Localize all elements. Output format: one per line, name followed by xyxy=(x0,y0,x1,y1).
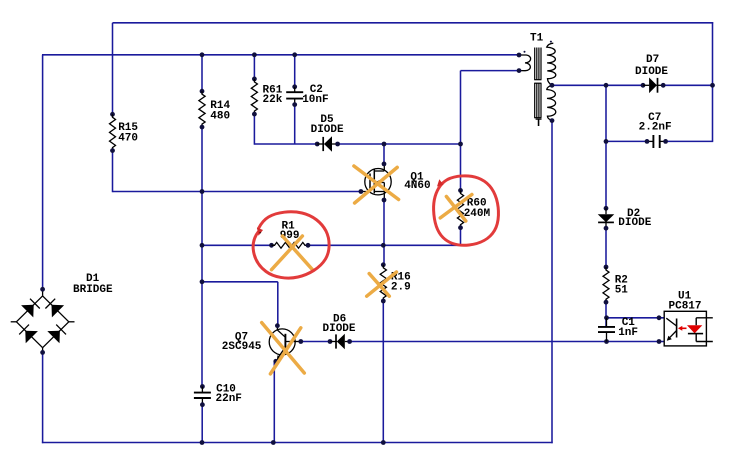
wire Q1 drain stub xyxy=(383,144,385,164)
wire C7 branch horizontal y=141.4 xyxy=(606,140,713,142)
wire R16 bottom vertical to ground bus xyxy=(382,301,384,443)
label D6 value xyxy=(323,314,356,336)
label R14 value xyxy=(210,100,230,122)
resistor R15 xyxy=(110,112,116,153)
label T1 xyxy=(530,33,544,45)
annotation red circle around R1 xyxy=(253,212,329,278)
wire R1 net left segment xyxy=(201,244,271,246)
label R1 value xyxy=(280,221,300,243)
junction Q7 branch / center vertical xyxy=(200,279,205,284)
svg-text:470: 470 xyxy=(118,132,138,144)
wire top bus from node A to right rail xyxy=(113,22,714,24)
wire D5 net horizontal y=144 xyxy=(254,143,317,145)
resistor R61 xyxy=(251,77,257,117)
junction ground bus / Q7 emitter xyxy=(271,440,276,445)
transistor Q1 (MOSFET 4N60) xyxy=(359,162,392,203)
junction input rail / C2 xyxy=(292,52,297,57)
diode D2 xyxy=(598,206,615,231)
junction input rail / R61 xyxy=(252,52,257,57)
svg-text:DIODE: DIODE xyxy=(323,323,356,335)
label T1 secondary T xyxy=(535,118,542,130)
junction R1 net / center vertical xyxy=(200,243,205,248)
junction Q1 drain / D5 net xyxy=(382,142,387,147)
svg-text:DIODE: DIODE xyxy=(311,124,344,136)
junction C1 top / U1 wire xyxy=(604,315,609,320)
wire R60 bottom to R1 net xyxy=(308,228,461,246)
wire R2 to C1 vertical xyxy=(605,302,607,327)
op-amp U1 (optocoupler PC817) xyxy=(657,311,713,346)
transformer T1 xyxy=(517,41,556,123)
wire gate net horizontal y=191.5 xyxy=(113,191,361,193)
annotation orange X over Q7 xyxy=(262,323,305,374)
label Q7 value xyxy=(222,332,262,354)
svg-text:4N60: 4N60 xyxy=(404,180,430,192)
wire Q1 source vertical to R16 xyxy=(383,200,385,265)
svg-text:22k: 22k xyxy=(263,94,283,106)
svg-text:1nF: 1nF xyxy=(618,327,638,339)
junction secondary output / D2 branch xyxy=(604,83,609,88)
annotation orange X over R16 xyxy=(367,272,397,296)
wire R61 branch vertical xyxy=(253,55,255,145)
wire center vertical x=202 (input rail to ground) xyxy=(201,55,203,443)
wire secondary output y=85.3 xyxy=(552,84,643,86)
svg-text:2.9: 2.9 xyxy=(391,282,411,294)
wire right rail vertical (top bus down to C7) xyxy=(712,22,714,141)
svg-text:BRIDGE: BRIDGE xyxy=(73,284,113,296)
label R2 value xyxy=(615,275,629,297)
wire feedback net y=341.5 (Q7 base / D6 / C1 / U1) xyxy=(301,341,665,343)
wire ground bus bottom horizontal xyxy=(42,442,553,444)
svg-text:T: T xyxy=(535,118,542,130)
junction ground bus / R16 xyxy=(381,440,386,445)
wire primary bottom return xyxy=(461,71,520,144)
capacitor C10 xyxy=(194,384,211,407)
junction input rail / R14 xyxy=(200,52,205,57)
resistor R1 xyxy=(269,242,310,248)
label D2 value xyxy=(618,208,651,229)
svg-text:22nF: 22nF xyxy=(216,393,242,405)
junction R1 net / R16 vertical xyxy=(381,243,386,248)
svg-text:D7: D7 xyxy=(646,54,659,66)
label U1 value xyxy=(669,291,702,313)
svg-text:10nF: 10nF xyxy=(302,94,328,106)
label C7 value xyxy=(639,112,672,134)
capacitor C1 xyxy=(598,318,615,342)
junction gate wire / center vertical xyxy=(200,189,205,194)
bridge rectifier D1 xyxy=(11,287,75,355)
label R60 value xyxy=(464,198,491,220)
annotation orange X over Q1 xyxy=(354,166,399,203)
wire R60 top vertical xyxy=(460,144,462,190)
label C10 value xyxy=(216,384,242,405)
wire left rail vertical (input rail to bridge top) xyxy=(42,55,44,289)
svg-text:480: 480 xyxy=(210,110,230,122)
label R61 value xyxy=(263,85,283,106)
label C2 value xyxy=(302,84,328,106)
svg-text:PC817: PC817 xyxy=(669,300,702,312)
wire transformer secondary return vertical x=552 xyxy=(551,121,553,444)
resistor R2 xyxy=(603,265,609,305)
svg-text:2.2nF: 2.2nF xyxy=(639,122,672,134)
annotation orange X over R60 xyxy=(440,195,472,222)
transistor Q7 (2SC945) xyxy=(269,323,303,363)
junction C1 bottom / feedback net xyxy=(604,339,609,344)
label R15 value xyxy=(118,122,138,145)
wire left vertical through R15 (top bus to gate wire) xyxy=(112,23,114,192)
junction C7 / D2 branch xyxy=(604,139,609,144)
wire input rail horizontal at y=55 xyxy=(42,54,519,56)
annotation orange X over R1 xyxy=(272,236,313,270)
label D5 value xyxy=(311,114,344,136)
diode D6 xyxy=(328,334,352,350)
wire C2 branch vertical xyxy=(294,55,296,144)
wire bridge bottom to ground bus xyxy=(42,352,44,443)
wire D7 cathode to right rail xyxy=(663,84,713,86)
wire D2 branch vertical x=606 xyxy=(605,85,607,208)
junction ground bus / center vertical xyxy=(200,440,205,445)
svg-text:51: 51 xyxy=(615,284,629,296)
wire C1 top junction to U1 anode-side pin xyxy=(607,317,665,319)
svg-text:DIODE: DIODE xyxy=(635,66,668,78)
capacitor C2 xyxy=(286,84,303,107)
svg-text:T1: T1 xyxy=(530,33,544,45)
label R16 value xyxy=(391,271,411,293)
label D1 value xyxy=(73,273,113,296)
wire D2 to R2 vertical xyxy=(605,228,607,267)
svg-text:240M: 240M xyxy=(464,208,491,220)
annotation red circle around R60 xyxy=(434,176,499,245)
svg-text:DIODE: DIODE xyxy=(618,217,651,229)
capacitor C7 xyxy=(645,135,668,148)
resistor R16 xyxy=(380,262,386,303)
diode D7 xyxy=(641,78,666,94)
svg-text:2SC945: 2SC945 xyxy=(222,341,262,353)
junction R60 vertical / D5 net xyxy=(458,142,463,147)
label C1 value xyxy=(618,317,638,339)
wire D5 cathode-row to Q1 drain and R60 vertical xyxy=(338,143,462,145)
resistor R60 xyxy=(457,188,463,230)
wire Q7 emitter vertical to ground bus xyxy=(273,362,275,443)
junction D7 cathode / right rail xyxy=(710,83,715,88)
resistor R14 xyxy=(199,89,205,130)
label D7 value xyxy=(635,54,668,78)
label Q1 value xyxy=(404,171,430,192)
wire Q7 collector branch xyxy=(201,282,277,326)
diode D5 xyxy=(315,136,340,152)
